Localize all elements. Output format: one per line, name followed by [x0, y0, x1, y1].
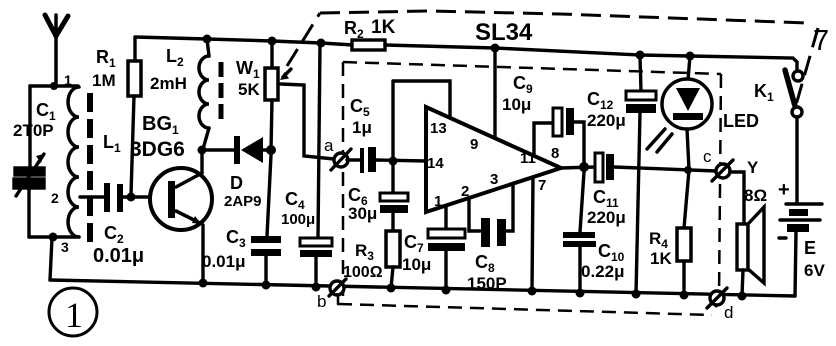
wire tank bottom to ground rail — [50, 238, 52, 280]
wire supply to pin 9 — [493, 48, 496, 137]
capacitor C8 — [481, 218, 506, 247]
outer dashed boundary — [287, 11, 818, 112]
svg-text:1μ: 1μ — [352, 118, 372, 137]
wire pin 13 feedback hook — [394, 81, 450, 116]
inductor L2 — [199, 39, 209, 149]
switch K1 — [785, 70, 803, 117]
svg-text:2: 2 — [51, 190, 59, 206]
capacitor C2 — [104, 183, 123, 212]
capacitor C4 — [300, 44, 332, 287]
svg-text:220μ: 220μ — [587, 111, 626, 130]
wire tank loop top — [30, 84, 78, 87]
svg-text:Y: Y — [747, 158, 759, 177]
L1 ferrite core — [87, 93, 93, 242]
node d — [707, 288, 727, 308]
LED — [647, 56, 712, 170]
svg-text:1K: 1K — [371, 17, 396, 38]
wire node c to speaker — [730, 172, 744, 224]
svg-text:100Ω: 100Ω — [343, 264, 383, 281]
svg-text:3: 3 — [490, 171, 498, 188]
junction W1 top — [268, 37, 277, 46]
wire tank loop left upper — [28, 86, 31, 168]
svg-text:100μ: 100μ — [281, 211, 315, 228]
svg-text:30μ: 30μ — [348, 204, 377, 223]
wire pin 1 to C7 — [444, 206, 447, 229]
capacitor C10 — [563, 172, 596, 293]
wire C9 to output node — [574, 122, 584, 166]
wire pin 3 to C8 — [507, 185, 513, 231]
capacitor C7 — [428, 229, 465, 290]
capacitor C5 — [360, 147, 376, 173]
svg-text:7: 7 — [538, 177, 546, 194]
junction C5/C6/pin13 node — [389, 157, 398, 166]
capacitor C11 — [595, 153, 614, 182]
wire W1 wiper to node a — [281, 84, 334, 159]
junction IC supply — [491, 44, 500, 53]
figure number circled 1 — [49, 288, 97, 336]
wire top rail right section — [385, 45, 797, 71]
node a — [331, 149, 351, 170]
junction output node — [579, 162, 589, 172]
svg-text:14: 14 — [427, 155, 444, 172]
wire pin 7 to ground — [532, 177, 533, 291]
svg-text:7: 7 — [813, 25, 829, 57]
wire L1 tap2 to C2 — [80, 195, 104, 198]
resistor R4 — [677, 170, 691, 295]
junction C3 ground — [262, 281, 271, 290]
junction L2 top — [203, 35, 212, 44]
wire pin 11 to C9 — [534, 123, 553, 156]
wire C2 to base node — [123, 195, 168, 198]
svg-text:0.01μ: 0.01μ — [93, 245, 144, 267]
svg-text:1K: 1K — [650, 249, 672, 268]
junction C7 ground — [442, 286, 451, 295]
potentiometer W1 — [265, 41, 291, 150]
node b — [329, 279, 346, 304]
svg-text:0.22μ: 0.22μ — [581, 262, 625, 281]
resistor R3 — [386, 213, 400, 288]
inductor L1 — [68, 87, 79, 237]
diode D — [234, 136, 271, 164]
svg-text:3: 3 — [61, 239, 69, 255]
svg-text:1: 1 — [65, 295, 83, 335]
junction diode cathode node — [266, 145, 276, 155]
battery E — [780, 117, 822, 296]
svg-text:a: a — [324, 136, 334, 155]
junction C12 top — [636, 51, 645, 60]
svg-text:9: 9 — [470, 136, 478, 153]
resistor R2 — [352, 40, 385, 50]
svg-text:+: + — [778, 179, 790, 201]
junction pin7 ground — [528, 287, 537, 296]
label battery minus — [779, 236, 786, 239]
wire tank loop bottom — [29, 235, 79, 238]
junction speaker ground — [738, 292, 747, 301]
svg-text:150P: 150P — [467, 274, 507, 293]
wire top rail left section — [135, 37, 353, 45]
resistor R1 — [128, 38, 141, 195]
svg-text:b: b — [317, 292, 326, 311]
svg-text:3DG6: 3DG6 — [130, 138, 185, 161]
wire tank loop left lower — [27, 188, 30, 237]
inner dashed module box — [338, 62, 721, 315]
svg-text:8: 8 — [551, 145, 559, 162]
transistor BG1 — [150, 150, 212, 283]
svg-text:0.01μ: 0.01μ — [202, 252, 246, 271]
junction emitter ground — [199, 279, 208, 288]
svg-text:10μ: 10μ — [402, 255, 431, 274]
svg-text:8Ω: 8Ω — [744, 186, 767, 205]
svg-text:2: 2 — [461, 183, 469, 200]
wire node a to C5 — [347, 158, 361, 161]
junction C12 ground — [632, 290, 641, 299]
svg-text:5K: 5K — [238, 80, 260, 99]
capacitor C12 — [626, 56, 656, 294]
L2 ferrite core — [219, 62, 224, 122]
junction C4 ground — [312, 283, 321, 292]
capacitor C6 — [380, 193, 408, 213]
svg-text:2AP9: 2AP9 — [224, 193, 262, 210]
svg-text:SL34: SL34 — [475, 19, 533, 46]
wire collector to diode — [202, 148, 234, 151]
svg-text:1: 1 — [64, 72, 72, 88]
op-amp U1 SL34 triangle — [426, 107, 561, 212]
junction antenna tank — [50, 82, 58, 90]
junction collector node — [198, 146, 207, 155]
svg-text:c: c — [703, 147, 712, 166]
svg-text:D: D — [230, 173, 243, 193]
wire output pin 8 — [561, 167, 595, 168]
ground rail — [50, 280, 795, 296]
svg-text:E: E — [804, 238, 816, 258]
wire pin13 node down to C6 — [391, 81, 394, 194]
junction LED/R4 node — [684, 166, 692, 174]
capacitor C3 — [251, 155, 281, 285]
junction base node — [127, 193, 136, 202]
junction R3 ground — [387, 284, 396, 293]
svg-text:2mH: 2mH — [150, 74, 187, 93]
junction C10 ground — [576, 289, 585, 298]
svg-text:d: d — [724, 303, 733, 322]
wire pin 2 to C8 — [469, 199, 480, 231]
svg-text:220μ: 220μ — [587, 208, 626, 227]
svg-text:6V: 6V — [804, 261, 825, 280]
speaker Y — [737, 207, 764, 296]
junction tank bottom — [49, 233, 58, 242]
wire C5 to pin 14 — [376, 160, 426, 161]
junction C4 branch — [317, 39, 326, 48]
svg-text:1M: 1M — [92, 71, 116, 90]
antenna — [45, 15, 68, 86]
svg-text:1: 1 — [434, 193, 442, 210]
svg-text:2T0P: 2T0P — [13, 121, 54, 140]
node c — [712, 160, 733, 181]
capacitor C1 (variable) — [14, 154, 44, 196]
junction R4 ground — [680, 291, 689, 300]
svg-text:LED: LED — [723, 111, 759, 131]
junction LED top — [686, 52, 695, 61]
svg-text:10μ: 10μ — [502, 95, 531, 114]
svg-text:13: 13 — [430, 120, 447, 137]
wire C11 to node c — [614, 167, 716, 171]
capacitor C9 — [553, 108, 574, 136]
